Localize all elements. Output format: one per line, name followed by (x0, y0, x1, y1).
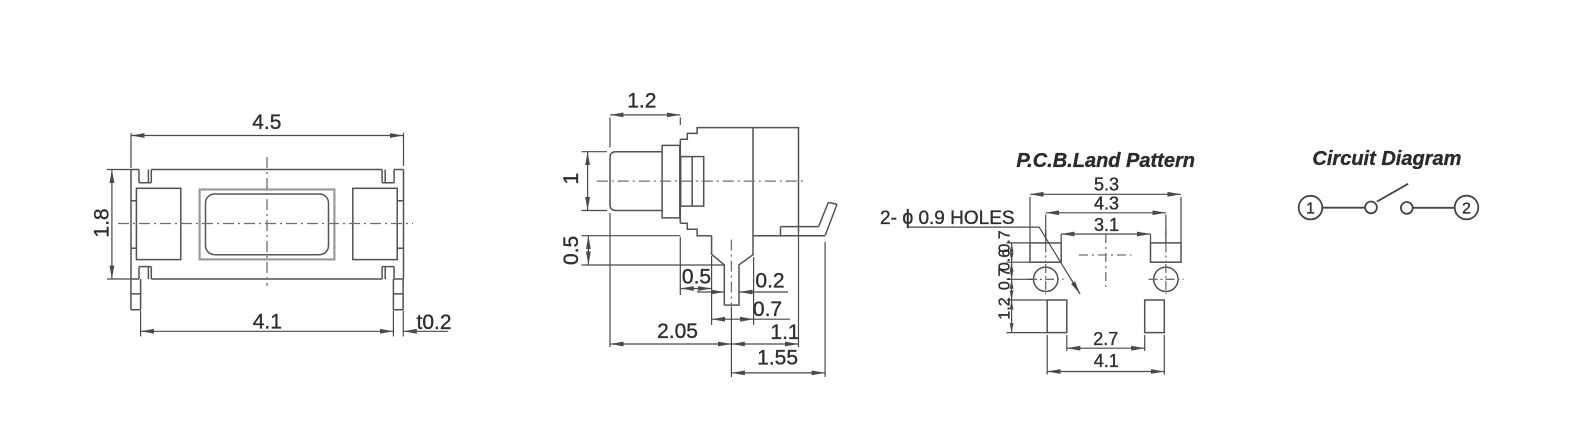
svg-text:2: 2 (1462, 200, 1471, 217)
svg-text:t0.2: t0.2 (417, 311, 452, 334)
svg-text:1.2: 1.2 (996, 297, 1013, 319)
svg-text:3.1: 3.1 (1094, 215, 1119, 235)
svg-text:1: 1 (1306, 200, 1315, 217)
svg-text:1.1: 1.1 (770, 321, 799, 344)
svg-text:0.2: 0.2 (755, 270, 784, 293)
svg-text:1.2: 1.2 (627, 90, 656, 113)
svg-text:1.55: 1.55 (757, 347, 798, 370)
svg-text:4.3: 4.3 (1094, 194, 1119, 214)
svg-text:0.5: 0.5 (682, 266, 711, 289)
svg-text:4.5: 4.5 (252, 111, 281, 134)
svg-text:0.7: 0.7 (753, 298, 782, 321)
svg-text:2.7: 2.7 (1093, 329, 1118, 349)
svg-text:0.5: 0.5 (560, 236, 583, 265)
svg-text:2- ɸ 0.9 HOLES: 2- ɸ 0.9 HOLES (880, 207, 1015, 229)
svg-text:5.3: 5.3 (1094, 175, 1119, 195)
svg-text:2.05: 2.05 (657, 320, 698, 343)
svg-text:0.7: 0.7 (996, 268, 1013, 290)
svg-text:1.8: 1.8 (91, 208, 114, 237)
svg-text:P.C.B.Land Pattern: P.C.B.Land Pattern (1016, 150, 1195, 172)
svg-text:4.1: 4.1 (1094, 351, 1119, 371)
svg-text:Circuit Diagram: Circuit Diagram (1312, 148, 1461, 170)
svg-text:0.6: 0.6 (996, 249, 1013, 271)
svg-text:1: 1 (560, 173, 583, 185)
svg-text:4.1: 4.1 (253, 311, 282, 334)
